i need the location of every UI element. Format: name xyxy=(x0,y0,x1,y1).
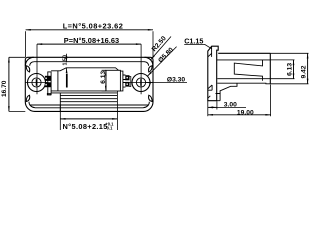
flange mid diagonal xyxy=(208,85,212,90)
corner curl top-right xyxy=(145,57,153,65)
screw right : outer circle xyxy=(132,74,150,92)
flange inner vertical xyxy=(211,46,213,57)
dim 6.13 side line xyxy=(293,60,295,79)
dim L extension left xyxy=(25,31,27,57)
dim 6.13 front line xyxy=(105,70,107,91)
body base line 2 (inner bottom) xyxy=(35,107,144,109)
right clamp strip column xyxy=(120,71,125,91)
screw right slot xyxy=(140,79,142,86)
dim 1.50 lower arrow line xyxy=(66,68,68,73)
skirt line 2 xyxy=(60,98,117,100)
flange foot block xyxy=(217,94,220,101)
flange bottom-left chamfer xyxy=(208,96,211,98)
body base line 1 xyxy=(30,104,148,106)
corner curl bottom-right xyxy=(143,102,149,108)
dim 19.00 line xyxy=(208,114,271,116)
flange outline xyxy=(208,46,218,100)
leader dia 3.30 xyxy=(146,82,187,84)
body inner top line xyxy=(34,61,145,63)
chamber bottom edge xyxy=(51,90,106,92)
screw left slot xyxy=(36,79,38,86)
dim 19.00 ext right xyxy=(270,85,272,117)
dim 9.42 ext top xyxy=(270,52,308,54)
dim L line xyxy=(26,29,153,31)
dim 9.42 ext bottom xyxy=(270,83,308,85)
dim 3.00 line xyxy=(208,106,217,108)
left clamp foot xyxy=(47,93,51,95)
body bottom steps xyxy=(216,83,238,93)
body outer outline xyxy=(25,57,153,111)
dim 3.00 ext mid xyxy=(216,101,218,109)
fork cavity xyxy=(234,60,262,81)
central rect xyxy=(106,70,120,91)
svg-text:Ø3.30: Ø3.30 xyxy=(167,76,185,83)
dim 16.70 line xyxy=(8,57,10,111)
screw left centerline vertical xyxy=(36,44,38,94)
dim P line xyxy=(37,43,141,45)
corner curl bottom-left xyxy=(29,102,35,108)
svg-text:1.50: 1.50 xyxy=(63,55,69,66)
leader dia 5.80 xyxy=(147,47,176,77)
screw right crosshair horizontal xyxy=(129,82,152,84)
body floor line xyxy=(217,82,270,85)
chamber top edge xyxy=(51,68,118,71)
svg-text:-0.1: -0.1 xyxy=(105,126,113,131)
dim bottom line xyxy=(60,118,117,120)
chamber step below clamp xyxy=(51,92,117,94)
leader R2.50 xyxy=(151,37,171,60)
svg-text:6.13: 6.13 xyxy=(100,71,107,84)
left clamp jaw lower (filled) xyxy=(45,82,51,87)
svg-text:16.70: 16.70 xyxy=(1,80,8,97)
corner curl top-left xyxy=(25,57,33,65)
dim 16.70 extension top xyxy=(9,56,25,58)
dim 3.00 tail xyxy=(217,106,246,108)
dim 1.50 upper arrow line xyxy=(66,54,68,62)
left clamp strip xyxy=(48,72,51,95)
svg-text:3.00: 3.00 xyxy=(224,101,237,108)
body top line xyxy=(218,52,270,54)
skirt line 1 xyxy=(60,95,117,97)
dim C1.15 leader xyxy=(184,44,211,48)
chamber left double wall xyxy=(66,74,68,88)
svg-text:9.42: 9.42 xyxy=(301,65,308,78)
left clamp jaw upper (filled) xyxy=(45,76,51,81)
dim bottom extension right xyxy=(116,91,118,130)
body right edge xyxy=(269,53,271,84)
dim 6.13 front ticks xyxy=(102,70,106,91)
body second line xyxy=(217,59,271,61)
dim 16.70 extension bottom xyxy=(9,110,25,112)
dim L extension right xyxy=(152,31,154,57)
dim 19.00 ext left xyxy=(207,101,209,117)
svg-text:N°5.08+2.15: N°5.08+2.15 xyxy=(63,122,108,131)
skirt line 3 xyxy=(60,101,117,103)
svg-text:P=N°5.08+16.63: P=N°5.08+16.63 xyxy=(64,36,119,45)
right clamp bump edge xyxy=(129,77,131,87)
flange upper diagonal xyxy=(208,53,212,57)
right clamp jaw lower (filled) xyxy=(125,82,129,87)
body line lower xyxy=(217,78,270,80)
dim 6.13 side ext bottom xyxy=(270,78,294,80)
left pocket wall xyxy=(57,71,59,91)
chamber side vertical left xyxy=(59,93,61,111)
screw right centerline vertical xyxy=(140,44,142,94)
dim 9.42 line xyxy=(307,53,309,84)
svg-text:19.00: 19.00 xyxy=(237,109,254,116)
dim 6.13 side ext top xyxy=(270,59,294,61)
screw left : outer circle xyxy=(28,74,46,92)
screw left : inner circle xyxy=(32,78,41,87)
screw left crosshair horizontal xyxy=(25,82,48,84)
svg-text:L=N°5.08+23.62: L=N°5.08+23.62 xyxy=(63,22,124,31)
right clamp jaw upper (filled) xyxy=(125,75,129,80)
svg-text:6.13: 6.13 xyxy=(287,63,294,76)
screw right : inner circle xyxy=(136,78,145,87)
dim bottom extension left xyxy=(59,105,61,130)
